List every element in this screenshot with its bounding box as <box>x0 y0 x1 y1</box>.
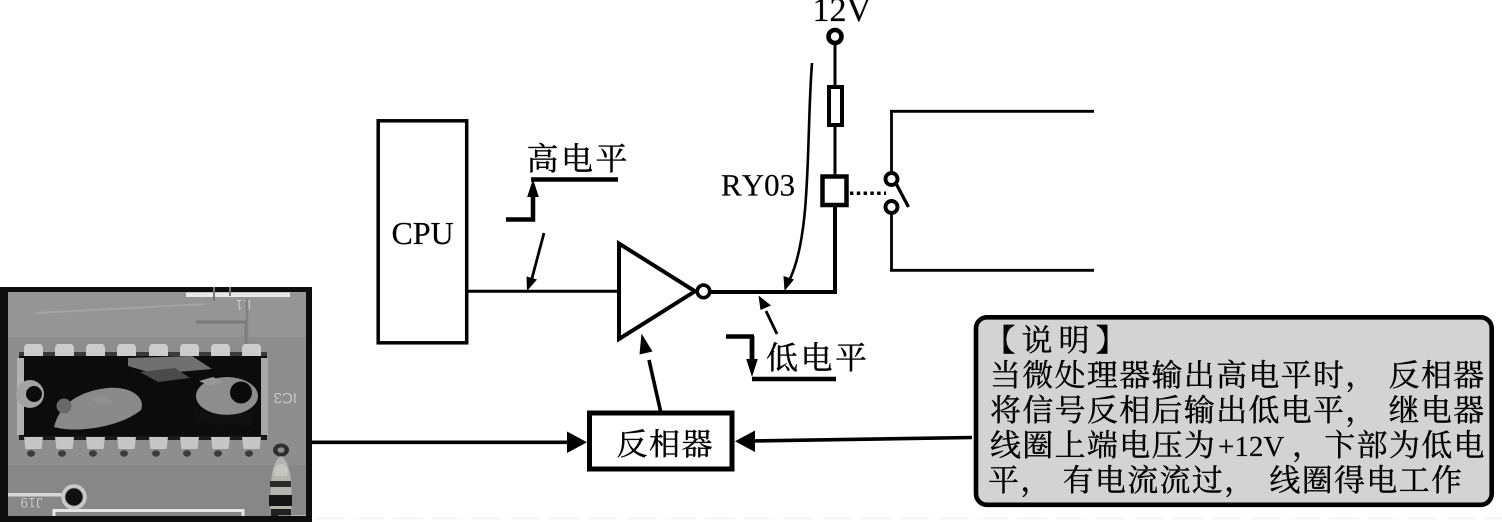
note line 5 <box>989 465 1017 493</box>
relay contact frame top wire <box>890 110 1094 113</box>
inverter output bubble <box>697 285 710 298</box>
photo jumper J19 and pad <box>8 493 62 497</box>
arrow: low-level waveform to inverter output wire <box>766 311 777 334</box>
lower contact circle <box>886 201 898 213</box>
waveform: high-level step (rising edge) <box>506 192 533 220</box>
dotted link: coil to contacts <box>850 191 886 195</box>
arrow: 反相器 to inverter symbol <box>649 360 661 411</box>
waveform: low-level step (falling edge) <box>726 334 754 339</box>
arrow: high-level waveform to CPU output wire <box>532 233 545 280</box>
wire: frame to upper contact <box>890 110 893 173</box>
arrow: photo to 反相器 (left input) <box>311 440 572 444</box>
CPU box <box>378 121 467 343</box>
resistor (relay coil series) <box>829 87 842 125</box>
photo frame <box>0 287 312 522</box>
wire: terminal to resistor <box>834 43 837 86</box>
photo silkscreen line <box>186 293 290 298</box>
wire: lower contact to frame bottom <box>890 214 893 272</box>
note line 4 <box>991 430 1020 458</box>
label 反相器 <box>618 429 647 457</box>
relay coil RY03 box <box>823 177 847 206</box>
label 高电平 (high level) <box>528 143 557 173</box>
switch blade <box>896 184 909 208</box>
photo PCB background <box>8 292 306 517</box>
photo IC chip IC3 <box>19 352 267 358</box>
wire: CPU to inverter input <box>467 290 617 293</box>
label RY03 <box>722 175 742 195</box>
upper contact circle <box>886 173 898 185</box>
faint page rule at bottom <box>315 517 1502 519</box>
note box 【说明】 <box>976 317 1492 505</box>
wire: resistor to relay coil <box>834 127 837 176</box>
arrow: note box to 反相器 (right input) <box>750 438 972 442</box>
PCB photo of inverter IC3 <box>0 287 312 522</box>
note line 3 <box>991 395 1020 423</box>
note line 2 <box>993 360 1018 388</box>
photo resistor <box>273 444 289 457</box>
wire: relay coil down and left to inverter output <box>709 205 835 292</box>
inverter U1 triangle <box>619 244 695 340</box>
relay contact frame bottom wire <box>890 269 1094 272</box>
CPU label <box>393 223 411 245</box>
curved arrow: relay coil region to output wire <box>789 63 812 281</box>
label 低电平 (low level) <box>767 342 797 371</box>
node 12V supply label <box>815 0 827 21</box>
inverter block 反相器 box <box>590 413 733 469</box>
12V terminal circle <box>829 30 842 43</box>
note title 【说明】 <box>1004 325 1015 354</box>
